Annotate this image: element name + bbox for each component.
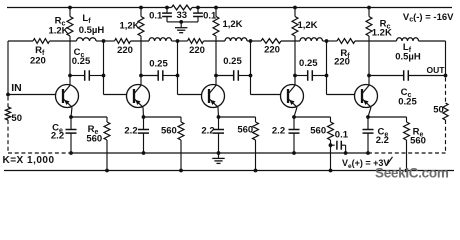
capacitor C_e 2.2 (stage 3) — [201, 117, 224, 153]
wire dashed source top — [7, 97, 9, 108]
wire base drop stage 5 — [327, 41, 355, 95]
resistor R_f 220 (stage 5 feedback) — [334, 39, 355, 68]
node Ce2 to V_e line — [142, 151, 146, 155]
node X2 (stage 3 base tap) — [176, 39, 180, 43]
resistor R_e 560 (stage 2) — [161, 117, 184, 171]
svg-text:2.2: 2.2 — [51, 130, 64, 141]
wire collector Q3 to circle — [215, 76, 217, 86]
label OUT — [427, 65, 446, 75]
svg-text:560: 560 — [237, 125, 253, 136]
svg-text:0.25: 0.25 — [223, 56, 242, 67]
svg-text:1,2K: 1,2K — [222, 19, 242, 30]
node emitter Q3 — [217, 115, 221, 119]
transistor Q2 — [127, 85, 150, 108]
wire V_c(-) supply rail (top) — [7, 7, 452, 9]
wire emitter Q4 junction — [294, 107, 331, 117]
transistor Q3 — [202, 85, 225, 108]
node emitter Q5 — [366, 115, 370, 119]
svg-text:560: 560 — [410, 136, 426, 147]
svg-text:0.1: 0.1 — [335, 130, 349, 141]
node collector Q5 — [367, 74, 371, 78]
wire coil4-to-node-X4 — [323, 40, 327, 42]
wire feedback line segment IN-to-Rf1 — [8, 40, 33, 42]
svg-text:220: 220 — [30, 55, 46, 66]
wire dashed load bottom — [445, 120, 447, 153]
capacitor C_c 0.25 (output coupling) — [369, 70, 446, 107]
resistor R_e 560 (stage 1) — [86, 117, 110, 171]
inductor L_f (stage 2) — [149, 38, 172, 41]
resistor 220 (stage 2 feedback) — [115, 39, 133, 56]
wire collector Q2 to circle — [140, 76, 142, 86]
svg-text:2.2: 2.2 — [376, 135, 389, 146]
capacitor C_c 0.25 (stage 1 coupling) — [70, 47, 104, 81]
resistor R_c 1.2K (stage 5) — [366, 8, 392, 76]
svg-text:OUT: OUT — [427, 65, 446, 75]
node X3 (stage 4 base tap) — [249, 39, 253, 43]
svg-text:1.2K: 1.2K — [48, 26, 68, 37]
svg-text:0.25: 0.25 — [398, 97, 417, 108]
capacitor C_c 0.25 (stage 2 coupling) — [141, 59, 178, 81]
watermark SeekIC.com — [375, 165, 449, 180]
wire Lf5-to-output corner — [419, 41, 446, 76]
resistor R_f 220 (stage 1 feedback) — [30, 39, 50, 67]
node Re5 to ground rail — [405, 169, 409, 173]
node Re1 to ground rail — [105, 169, 109, 173]
node emitter Q1 — [69, 115, 73, 119]
node rail tap stage 1 — [68, 6, 72, 10]
resistor 1,2K (stage 3 collector) — [213, 8, 243, 76]
wire Rf1-to-Lf1 — [50, 40, 77, 42]
wire base drop stage 2 — [104, 41, 127, 95]
wire IN vertical to feedback line — [7, 41, 9, 95]
resistor 50 (load) — [433, 103, 448, 120]
wire dashed load top — [445, 78, 447, 104]
wire R4-to-coil4 — [281, 40, 300, 42]
svg-text:50: 50 — [433, 104, 444, 115]
node Cc3 right junction — [249, 74, 253, 78]
node OUT — [444, 74, 448, 78]
capacitor C_c 0.25 (stage 4 coupling) — [295, 58, 327, 81]
svg-text:560: 560 — [310, 126, 326, 137]
node Re3 to ground rail — [254, 169, 258, 173]
svg-text:560: 560 — [86, 133, 102, 144]
wire collector Q1 to circle — [69, 76, 71, 86]
node collector Q1 — [68, 74, 72, 78]
node X4 (stage 5 base tap) — [325, 39, 329, 43]
node rail-right of 33 — [196, 6, 200, 10]
svg-text:33: 33 — [177, 10, 188, 21]
wire IN to Q1 base — [8, 94, 56, 96]
wire collector Q5 to circle — [368, 76, 370, 86]
wire X4-to-Rf5 — [327, 40, 338, 42]
node decoupling junction — [179, 20, 183, 24]
node Ce5 to V_e line — [366, 151, 370, 155]
node rail tap stage 4 — [293, 6, 297, 10]
wire V_e dashed to output load — [368, 152, 446, 154]
wire base drop stage 4 — [251, 41, 281, 95]
node Ce1 to V_e line — [69, 151, 73, 155]
node collector Q3 — [214, 74, 218, 78]
capacitor C_e 2.2 (stage 5) — [363, 117, 389, 153]
node emitter Q4 — [292, 115, 296, 119]
resistor 1,2K (stage 4 collector) — [292, 8, 318, 76]
inductor L_f 0.5uH (stage 5 output) — [395, 38, 421, 63]
svg-text:2.2: 2.2 — [124, 126, 137, 137]
resistor 1,2K (stage 2 collector) — [119, 8, 143, 76]
svg-text:SeekIC.com: SeekIC.com — [375, 165, 449, 180]
wire emitter Q5 junction — [368, 107, 407, 117]
inductor L_f 0.5uH (stage 1) — [77, 13, 105, 41]
wire coil2-to-node-X2 — [172, 40, 178, 42]
svg-text:560: 560 — [161, 126, 177, 137]
node X1 (stage 2 base tap) — [102, 39, 106, 43]
transistor Q5 — [355, 85, 378, 108]
svg-text:220: 220 — [334, 57, 350, 68]
wire R3-to-coil3 — [204, 40, 226, 42]
node Re2 to ground rail — [179, 169, 183, 173]
node Cc1 right junction — [102, 74, 106, 78]
node IN junction — [6, 93, 10, 97]
svg-text:2.2: 2.2 — [272, 126, 285, 137]
node Ce4 to V_e line — [292, 151, 296, 155]
resistor 33 (rail decoupling) — [172, 5, 193, 21]
capacitor 0.1 (right decoupling) — [181, 8, 217, 22]
node rail tap stage 5 — [367, 6, 371, 10]
svg-text:1,2K: 1,2K — [297, 20, 317, 31]
resistor R_e 560 (stage 4) — [310, 117, 333, 171]
transistor Q1 — [56, 85, 79, 108]
inductor L_f (stage 4) — [300, 38, 323, 41]
node collector Q4 — [293, 74, 297, 78]
svg-text:0.25: 0.25 — [72, 56, 91, 67]
svg-text:1,2K: 1,2K — [119, 21, 139, 32]
node rail tap stage 3 — [214, 6, 218, 10]
wire base drop stage 3 — [178, 41, 202, 95]
resistor 220 (stage 4 feedback) — [261, 39, 281, 56]
node Cc2 right junction — [176, 74, 180, 78]
node rail tap stage 2 — [139, 6, 143, 10]
wire R2-to-coil2 — [131, 40, 150, 42]
svg-text:0.25: 0.25 — [149, 59, 168, 70]
resistor R_c 1.2K (stage 1) — [48, 8, 72, 76]
ground (rail filter) — [175, 22, 187, 33]
wire emitter Q3 junction — [218, 107, 256, 117]
svg-text:IN: IN — [11, 82, 22, 94]
node 0.1 to V_e line — [344, 151, 348, 155]
wire dashed source bottom — [8, 120, 69, 153]
label K=X 1,000 — [3, 155, 55, 166]
svg-text:K=X 1,000: K=X 1,000 — [3, 155, 55, 166]
resistor R_e 560 (stage 3) — [237, 117, 258, 171]
wire ground rail (bottom) — [4, 170, 454, 172]
capacitor C_e 2.2 (stage 1) — [51, 117, 77, 153]
label V_e(+)=+3V — [342, 157, 393, 170]
wire collector Q4 to circle — [294, 76, 296, 86]
wire X3-to-R4 — [251, 40, 262, 42]
node rail-left of 33 — [165, 6, 169, 10]
capacitor C_c 0.25 (stage 3 coupling) — [216, 56, 251, 81]
wire emitter Q2 junction — [143, 107, 181, 117]
wire Rf5-to-Lf5 — [355, 40, 397, 42]
capacitor C_e 2.2 (stage 4) — [272, 117, 300, 153]
wire coil3-to-node-X3 — [247, 40, 251, 42]
node collector Q2 — [139, 74, 143, 78]
capacitor 0.1 (left decoupling) — [149, 8, 181, 22]
svg-text:1.2K: 1.2K — [372, 28, 392, 39]
wire V_e line (solid) — [71, 152, 368, 154]
capacitor C_e 2.2 (stage 2) — [124, 117, 149, 153]
node Re4 to ground rail — [329, 169, 333, 173]
resistor 220 (stage 3 feedback) — [188, 39, 205, 56]
svg-text:0.25: 0.25 — [299, 58, 318, 69]
svg-text:0.5µH: 0.5µH — [79, 25, 105, 36]
node emitter Q2 — [142, 115, 146, 119]
wire X1-to-R2 — [104, 40, 115, 42]
svg-text:2.2: 2.2 — [201, 126, 214, 137]
wire X2-to-R3 — [178, 40, 188, 42]
ground (V_e bypass at stage 3) — [212, 153, 224, 163]
svg-text:220: 220 — [189, 45, 205, 56]
resistor R_e 560 (stage 5) — [404, 117, 426, 171]
label IN — [11, 82, 22, 94]
inductor L_f (stage 3) — [225, 38, 247, 41]
transistor Q4 — [281, 85, 304, 108]
wire emitter Q1 junction — [71, 107, 107, 117]
node 0.1 tap on Re4 — [329, 143, 333, 147]
node Ce3 to V_e line — [217, 151, 221, 155]
wire Lf1-to-node-X1 — [96, 40, 104, 42]
svg-text:220: 220 — [264, 45, 280, 56]
svg-text:50: 50 — [11, 113, 22, 124]
svg-text:0.5µH: 0.5µH — [395, 51, 421, 62]
svg-text:0.1: 0.1 — [149, 10, 163, 21]
node Cc4 right junction — [325, 74, 329, 78]
resistor 50 (source) — [5, 107, 22, 124]
capacitor 0.1 (V_e bypass) — [331, 130, 349, 153]
label V_c(-)=-16V — [403, 12, 454, 24]
svg-text:220: 220 — [117, 45, 133, 56]
